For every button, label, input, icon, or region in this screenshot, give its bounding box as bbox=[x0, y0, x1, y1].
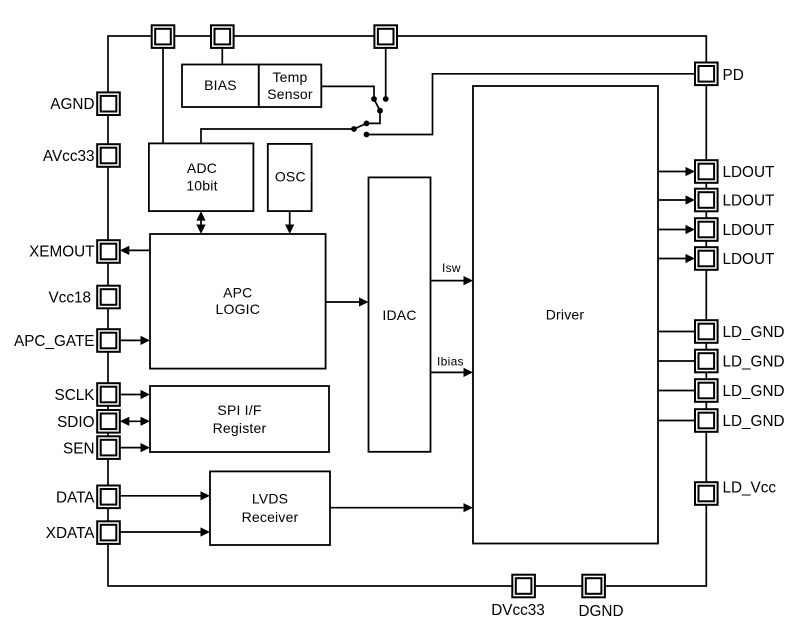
switch lever A-B bbox=[374, 99, 380, 111]
arrow OSC to APC bbox=[289, 211, 291, 230]
wire switch pole D to ADC input bbox=[201, 129, 354, 143]
block APC LOGIC bbox=[150, 234, 326, 369]
pad XEMOUT bbox=[97, 240, 120, 263]
pad DATA bbox=[97, 486, 120, 509]
svg-text:SCLK: SCLK bbox=[55, 387, 96, 404]
svg-text:Driver: Driver bbox=[546, 307, 585, 323]
pad top 2 bbox=[211, 25, 234, 48]
svg-text:LD_GND: LD_GND bbox=[723, 383, 785, 400]
svg-text:APC: APC bbox=[223, 285, 252, 301]
wire Driver to LD_GND 4 bbox=[658, 420, 695, 422]
pad APC_GATE bbox=[97, 329, 120, 352]
block LVDS Receiver bbox=[210, 471, 330, 545]
svg-text:LVDS: LVDS bbox=[252, 490, 288, 506]
pad SDIO bbox=[97, 410, 120, 433]
pad LD_GND 3 bbox=[695, 379, 718, 402]
block Driver bbox=[473, 86, 658, 544]
svg-text:Sensor: Sensor bbox=[267, 86, 313, 102]
wire switch pole B elbow to contact C bbox=[367, 111, 381, 124]
svg-text:LDOUT: LDOUT bbox=[723, 222, 775, 239]
wire Driver to LD_GND 3 bbox=[658, 390, 695, 392]
pad SEN bbox=[97, 436, 120, 459]
svg-text:XDATA: XDATA bbox=[46, 525, 96, 542]
arrow Isw IDAC to Driver bbox=[431, 280, 468, 282]
switch dot F bbox=[383, 96, 389, 102]
svg-text:Register: Register bbox=[213, 420, 267, 436]
arrow Ibias IDAC to Driver bbox=[431, 371, 468, 373]
svg-text:Isw: Isw bbox=[442, 261, 461, 275]
svg-text:APC_GATE: APC_GATE bbox=[14, 333, 94, 350]
switch dot E bbox=[364, 132, 370, 138]
pad DGND bbox=[582, 575, 605, 598]
svg-text:LDOUT: LDOUT bbox=[723, 164, 775, 181]
arrow APC to IDAC bbox=[326, 301, 362, 303]
svg-text:DGND: DGND bbox=[578, 603, 623, 620]
block OSC bbox=[268, 144, 312, 211]
pad top 1 bbox=[152, 25, 175, 48]
pad LDOUT 3 bbox=[695, 218, 718, 241]
svg-text:Vcc18: Vcc18 bbox=[48, 290, 91, 307]
arrow Driver to LDOUT 2 bbox=[658, 199, 689, 201]
pad LDOUT 2 bbox=[695, 189, 718, 212]
wire pad3 to switch contact F bbox=[385, 36, 387, 99]
wire switch contact E to PD pad bbox=[367, 74, 696, 135]
svg-text:XEMOUT: XEMOUT bbox=[29, 244, 94, 261]
switch dot C bbox=[364, 121, 370, 127]
svg-text:Ibias: Ibias bbox=[437, 355, 464, 369]
arrow APC_GATE pad to APC bbox=[120, 339, 144, 341]
svg-text:IDAC: IDAC bbox=[382, 307, 416, 323]
wire pad1 to ADC bbox=[162, 36, 164, 143]
arrow Driver to LDOUT 3 bbox=[658, 229, 689, 231]
pad DVcc33 bbox=[512, 575, 535, 598]
svg-text:LD_GND: LD_GND bbox=[723, 324, 785, 341]
switch dot A bbox=[371, 96, 377, 102]
arrow ADC-APC bidirectional bbox=[200, 215, 202, 230]
block Temp Sensor bbox=[259, 65, 322, 108]
pad PD bbox=[695, 63, 718, 86]
arrow DATA pad to LVDS bbox=[120, 495, 204, 497]
svg-text:LDOUT: LDOUT bbox=[723, 251, 775, 268]
pad LD_GND 2 bbox=[695, 350, 718, 373]
arrow SDIO bidirectional bbox=[124, 420, 146, 422]
svg-text:ADC: ADC bbox=[187, 160, 217, 176]
pad AVcc33 bbox=[97, 144, 120, 167]
arrow Driver to LDOUT 4 bbox=[658, 258, 689, 260]
arrow SEN pad to SPI bbox=[120, 447, 144, 449]
svg-text:SDIO: SDIO bbox=[57, 414, 94, 431]
svg-text:PD: PD bbox=[723, 67, 744, 84]
pad LD_GND 4 bbox=[695, 409, 718, 432]
svg-text:10bit: 10bit bbox=[186, 178, 217, 194]
arrow LVDS to Driver bbox=[330, 507, 467, 509]
svg-text:LOGIC: LOGIC bbox=[216, 301, 261, 317]
pad AGND bbox=[97, 92, 120, 115]
svg-text:Receiver: Receiver bbox=[242, 509, 299, 525]
svg-text:AVcc33: AVcc33 bbox=[43, 148, 95, 165]
svg-text:SPI I/F: SPI I/F bbox=[217, 402, 261, 418]
svg-text:LD_Vcc: LD_Vcc bbox=[723, 480, 777, 497]
chip outline border bbox=[108, 36, 706, 586]
svg-text:LDOUT: LDOUT bbox=[723, 193, 775, 210]
switch dot D bbox=[351, 126, 357, 132]
svg-text:LD_GND: LD_GND bbox=[723, 413, 785, 430]
wire pad2 to BIAS bbox=[221, 36, 223, 65]
arrow SCLK pad to SPI bbox=[120, 394, 144, 396]
wire Driver to LD_GND 1 bbox=[658, 331, 695, 333]
pad XDATA bbox=[97, 521, 120, 544]
pad LD_GND 1 bbox=[695, 320, 718, 343]
pad top 3 bbox=[374, 25, 397, 48]
svg-text:SEN: SEN bbox=[63, 441, 94, 458]
pad LDOUT 4 bbox=[695, 247, 718, 270]
svg-text:BIAS: BIAS bbox=[204, 77, 237, 93]
pad SCLK bbox=[97, 383, 120, 406]
wire Driver to LD_GND 2 bbox=[658, 360, 695, 362]
svg-text:AGND: AGND bbox=[50, 96, 94, 113]
pad Vcc18 bbox=[97, 286, 120, 309]
switch lever C-D bbox=[354, 123, 367, 129]
wire Temp Sensor output to switch contact A bbox=[321, 86, 374, 99]
block IDAC bbox=[369, 177, 431, 451]
block SPI I/F Register bbox=[150, 386, 329, 452]
svg-text:Temp: Temp bbox=[272, 69, 307, 85]
arrow XDATA pad to LVDS bbox=[120, 531, 204, 533]
arrow Driver to LDOUT 1 bbox=[658, 171, 689, 173]
svg-text:OSC: OSC bbox=[275, 168, 306, 184]
svg-text:LD_GND: LD_GND bbox=[723, 354, 785, 371]
block BIAS bbox=[182, 65, 259, 108]
svg-text:DVcc33: DVcc33 bbox=[491, 602, 545, 619]
arrow APC to XEMOUT pad bbox=[126, 249, 150, 251]
svg-text:DATA: DATA bbox=[56, 489, 95, 506]
pad LDOUT 1 bbox=[695, 160, 718, 183]
pad LD_Vcc bbox=[695, 482, 718, 505]
block ADC 10bit bbox=[149, 143, 254, 211]
switch dot B bbox=[377, 108, 383, 114]
